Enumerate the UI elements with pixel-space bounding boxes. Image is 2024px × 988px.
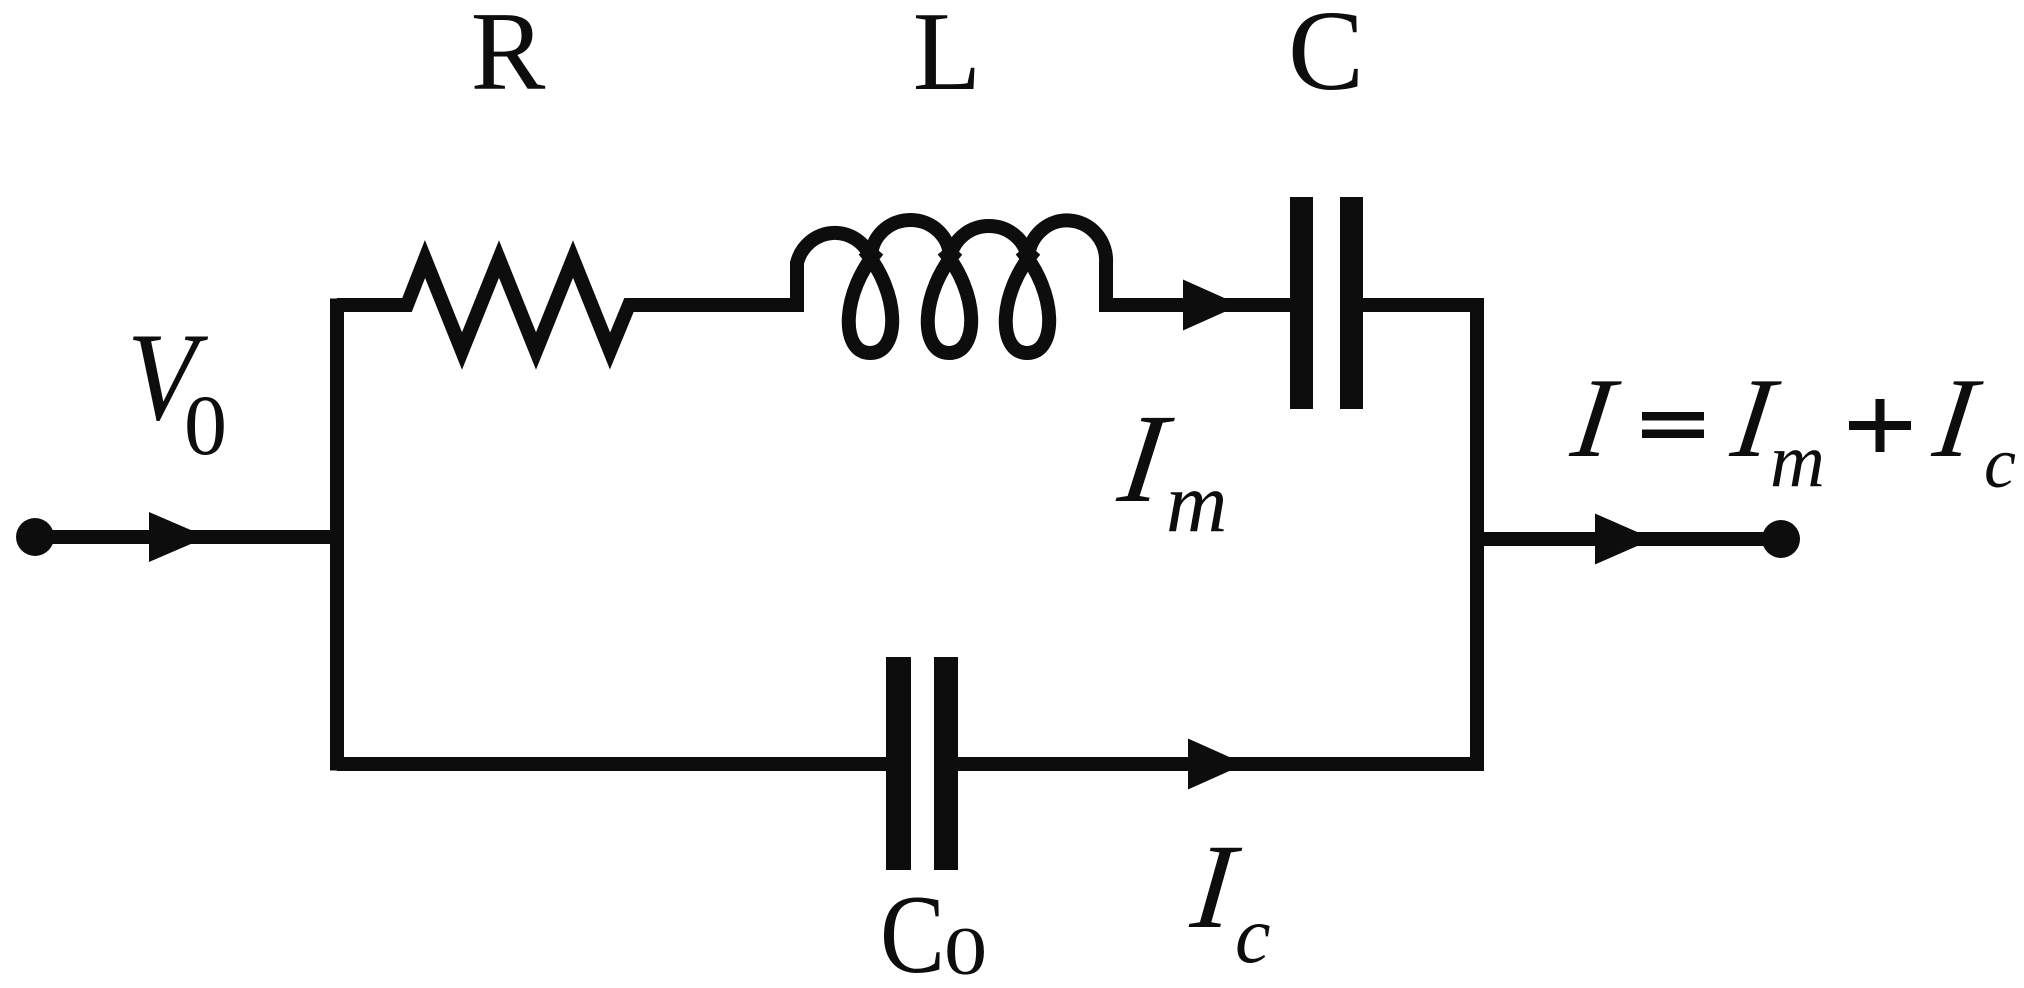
svg-text:R: R bbox=[471, 0, 546, 114]
svg-text:c: c bbox=[1235, 892, 1271, 980]
svg-text:I: I bbox=[1565, 354, 1627, 480]
svg-text:c: c bbox=[1984, 423, 2016, 503]
svg-text:I: I bbox=[1927, 354, 1989, 480]
svg-text:0: 0 bbox=[184, 377, 227, 473]
svg-text:L: L bbox=[913, 0, 981, 114]
svg-text:m: m bbox=[1770, 419, 1825, 503]
svg-text:C: C bbox=[880, 872, 945, 988]
svg-text:0: 0 bbox=[944, 914, 987, 988]
svg-text:C: C bbox=[1288, 0, 1364, 114]
svg-text:m: m bbox=[1166, 456, 1227, 550]
